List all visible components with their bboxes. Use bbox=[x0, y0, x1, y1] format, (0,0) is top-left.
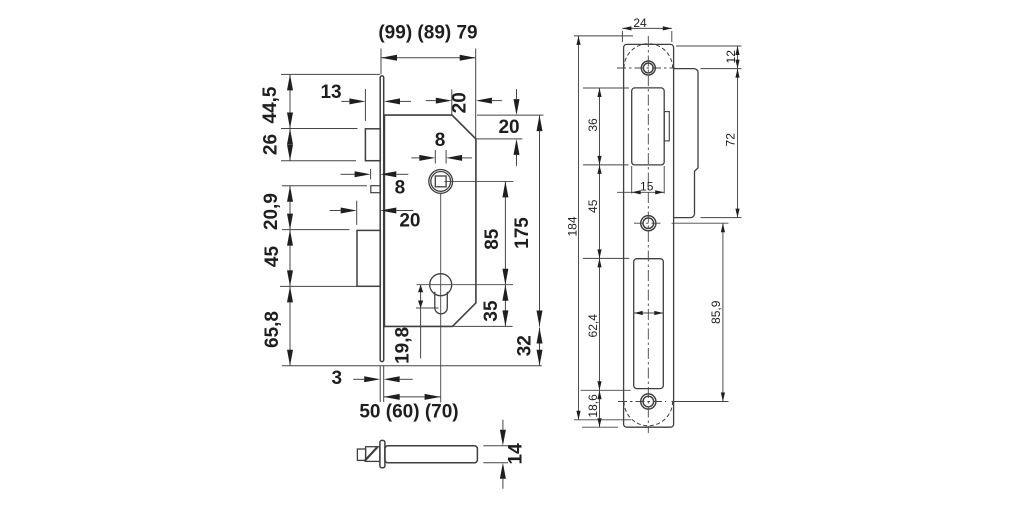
svg-text:62,4: 62,4 bbox=[586, 314, 600, 338]
strike plate lip (bent tongue) bbox=[674, 69, 698, 218]
dim 14 bbox=[502, 420, 504, 430]
svg-text:45: 45 bbox=[586, 199, 600, 213]
spindle square 8mm bbox=[435, 176, 446, 187]
dim 62,4 bbox=[599, 258, 601, 390]
bottom view: lock body bbox=[385, 446, 478, 463]
dim 12 extensions bbox=[676, 45, 742, 47]
dim 24 bbox=[622, 27, 671, 29]
svg-text:184: 184 bbox=[565, 216, 579, 236]
left column extensions bbox=[583, 87, 629, 89]
adjustable tab in latch window bbox=[664, 112, 669, 141]
dim 65,8 bbox=[289, 286, 291, 365]
dim 15 bbox=[617, 191, 664, 193]
dim 20 right (vertical) bbox=[477, 114, 544, 116]
bottom view: faceplate flange bbox=[380, 440, 385, 467]
dim 20,9 bbox=[289, 186, 291, 230]
spindle follower outer circle bbox=[429, 170, 453, 194]
dim 45 bbox=[599, 165, 601, 259]
plate vertical centerline bbox=[647, 36, 649, 433]
svg-text:24: 24 bbox=[633, 16, 647, 30]
bottom view: latch bevel diagonal bbox=[364, 447, 377, 461]
dim 26 bbox=[289, 129, 291, 161]
centerline vertical through spindle/cylinder bbox=[440, 194, 442, 403]
euro cylinder stem bbox=[435, 292, 448, 314]
svg-text:8: 8 bbox=[395, 178, 406, 199]
svg-text:20: 20 bbox=[498, 117, 519, 138]
svg-text:45: 45 bbox=[262, 246, 283, 268]
svg-text:13: 13 bbox=[320, 82, 341, 103]
case bottom extension line bbox=[452, 325, 512, 327]
latch bolt (side view) bbox=[365, 129, 380, 161]
dim 20 deadbolt bbox=[356, 201, 358, 225]
dashed rounded-end arc top bbox=[624, 44, 673, 68]
svg-text:50 (60) (70): 50 (60) (70) bbox=[359, 401, 458, 422]
dim (99)(89)79 extension right bbox=[475, 49, 477, 139]
faceplate extension lines down bbox=[379, 366, 381, 402]
svg-text:14: 14 bbox=[506, 443, 527, 465]
dim 72 bbox=[737, 69, 739, 218]
middle screw hole bbox=[641, 216, 656, 231]
lock case outline bbox=[384, 115, 476, 326]
svg-text:18,6: 18,6 bbox=[586, 394, 600, 418]
svg-text:32: 32 bbox=[514, 335, 535, 356]
dim 175 bbox=[539, 115, 541, 326]
spindle follower inner circle bbox=[431, 172, 451, 192]
dim 19,8 bbox=[420, 285, 422, 359]
dim 184 bbox=[578, 36, 580, 420]
centerline spindle horizontal bbox=[445, 180, 514, 182]
svg-text:85,9: 85,9 bbox=[709, 300, 723, 324]
fixing nub 8mm bbox=[371, 186, 381, 193]
svg-text:36: 36 bbox=[586, 118, 600, 132]
bottom view: latch head bbox=[366, 447, 380, 462]
dim 3 faceplate thickness bbox=[353, 378, 364, 380]
svg-text:26: 26 bbox=[261, 134, 282, 155]
deadbolt window adjust arrow bbox=[634, 312, 664, 314]
dim 14 extension lines bbox=[483, 445, 508, 447]
dim 8 spindle square bbox=[434, 150, 436, 164]
svg-text:12: 12 bbox=[724, 50, 738, 64]
dim (99)(89)79 extension left bbox=[380, 49, 382, 75]
strike plate outline bbox=[624, 44, 674, 427]
centerline cylinder horizontal bbox=[417, 284, 514, 286]
bottom screw hole bbox=[641, 394, 656, 409]
dim 32 bbox=[539, 328, 541, 366]
svg-text:20: 20 bbox=[449, 92, 470, 113]
svg-text:72: 72 bbox=[724, 133, 738, 147]
svg-text:(99) (89) 79: (99) (89) 79 bbox=[378, 23, 477, 44]
dim (99)(89)79 bbox=[381, 57, 476, 59]
latch window bbox=[632, 88, 665, 165]
faceplate (front plate) bbox=[380, 76, 384, 362]
svg-text:20,9: 20,9 bbox=[261, 193, 282, 230]
svg-text:65,8: 65,8 bbox=[262, 311, 283, 348]
svg-text:19,8: 19,8 bbox=[392, 327, 413, 364]
svg-text:20: 20 bbox=[399, 210, 420, 231]
dim 12 bbox=[737, 46, 739, 69]
svg-text:3: 3 bbox=[332, 368, 343, 389]
deadbolt window bbox=[634, 259, 664, 389]
middle hole crosshair bbox=[634, 222, 663, 224]
middle hole extension to 85,9 bbox=[672, 222, 729, 224]
deadbolt (side view) bbox=[357, 230, 380, 286]
dim 24 extensions bbox=[621, 31, 623, 42]
dim 44,5 bbox=[289, 74, 291, 128]
dim 15 extensions bbox=[631, 166, 633, 194]
bottom hole extension to 85,9 bbox=[672, 401, 729, 403]
dim 45 bbox=[289, 230, 291, 287]
dim 36 bbox=[599, 88, 601, 165]
dashed rounded-end arc bottom bbox=[624, 402, 673, 426]
svg-text:15: 15 bbox=[640, 180, 654, 194]
dim 35 bbox=[504, 285, 506, 327]
dim 13 bbox=[364, 89, 366, 121]
dim 72 extension bbox=[701, 217, 742, 219]
euro cylinder circle bbox=[430, 274, 452, 296]
bottom hole crosshair bbox=[618, 401, 666, 403]
svg-text:8: 8 bbox=[435, 130, 446, 151]
dim 85 bbox=[504, 181, 506, 284]
dim 184 extensions bbox=[574, 35, 633, 37]
svg-text:85: 85 bbox=[482, 228, 503, 250]
top screw hole bbox=[641, 61, 655, 75]
dim 50 (60) (70) bbox=[384, 396, 441, 398]
svg-text:44,5: 44,5 bbox=[260, 86, 281, 123]
left column extension lines bbox=[281, 73, 380, 75]
bottom view: latch head tip bbox=[357, 449, 365, 460]
baseline extension bbox=[282, 365, 542, 367]
dim 18,6 bbox=[599, 390, 601, 427]
dim 85,9 bbox=[722, 223, 724, 401]
top hole crosshair bbox=[617, 67, 675, 69]
dim 20 chamfer (rotated) bbox=[451, 90, 453, 116]
svg-text:35: 35 bbox=[481, 300, 502, 322]
svg-text:175: 175 bbox=[512, 217, 533, 249]
dim 8 nub bbox=[370, 169, 372, 180]
